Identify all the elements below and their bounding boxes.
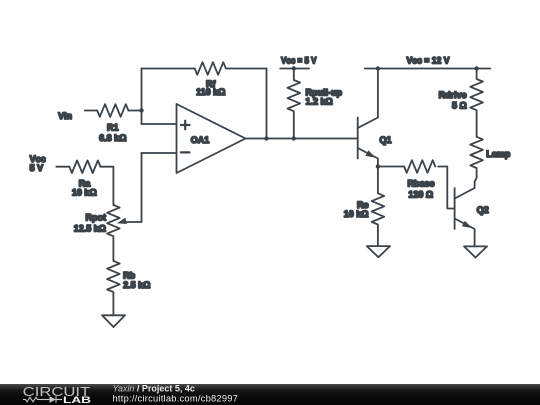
svg-text:LAB: LAB: [63, 395, 91, 405]
resistor Rdrive: [470, 69, 483, 137]
wire wiper horizontal: [125, 221, 142, 223]
resistor Re: [372, 167, 385, 247]
wire op-amp output: [246, 138, 358, 140]
ground under Re: [367, 246, 390, 257]
svg-text:http://circuitlab.com/cb82997: http://circuitlab.com/cb82997: [113, 393, 239, 403]
resistor R1: [97, 104, 128, 117]
node pull-up junction: [292, 136, 296, 140]
node Q1 collector on rail: [376, 66, 380, 70]
node Q1 emitter junction: [376, 164, 380, 168]
wire Rpot to Rb: [112, 237, 114, 261]
resistor Ra: [69, 160, 100, 173]
wiper arrowhead: [117, 218, 127, 224]
wire Rbase to Q2 base: [438, 167, 455, 209]
node junction R1/feedback: [139, 108, 143, 112]
op-amp OA1: [177, 104, 246, 173]
node on 5V bar: [292, 66, 296, 70]
footer bar: [0, 384, 540, 405]
wire Vin to R1: [85, 110, 97, 112]
wire Q1 emitter to Rbase: [378, 166, 404, 168]
wire feedback left vertical: [141, 69, 143, 125]
resistor Rb: [107, 261, 120, 315]
wire feedback top left: [142, 68, 195, 70]
node Rdrive on rail: [474, 66, 478, 70]
potentiometer Rpot: [107, 205, 120, 236]
resistor Rf: [195, 62, 226, 75]
transistor Q1: [357, 118, 359, 159]
ground under Q2: [464, 246, 487, 257]
wire to + input: [142, 123, 177, 125]
wire R1 to node: [128, 110, 141, 112]
wire Ra to Rpot: [100, 167, 113, 205]
svg-text:Yaxin / Project 5, 4c: Yaxin / Project 5, 4c: [113, 383, 195, 393]
wire to - input: [142, 152, 177, 154]
wire wiper vertical: [141, 153, 143, 222]
resistor Rbase: [404, 160, 435, 173]
transistor Q2: [454, 188, 456, 229]
resistor Rpull-up: [287, 69, 300, 139]
wire feedback right vertical: [266, 69, 268, 139]
logo resistor-diode glyph: [23, 396, 62, 402]
ground under Rb: [102, 315, 125, 327]
node output/feedback: [264, 136, 268, 140]
lamp Lamp (resistor symbol): [470, 137, 483, 168]
wire Vcc to Ra: [56, 166, 69, 168]
wire feedback top right: [227, 68, 267, 70]
